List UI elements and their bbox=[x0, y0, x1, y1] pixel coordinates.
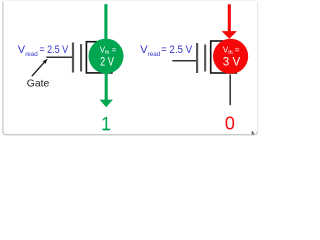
svg-text:Gate: Gate bbox=[27, 78, 50, 89]
control gate plate (left) bbox=[72, 43, 74, 73]
blocked current line (right, red) bbox=[228, 4, 231, 32]
Vth label inside green circle bbox=[100, 46, 117, 69]
svg-text:= 2.5 V: = 2.5 V bbox=[161, 44, 193, 56]
callout arrow from Gate to wire (left) bbox=[32, 59, 48, 77]
blocked current arrowhead (right, red) bbox=[222, 31, 237, 39]
svg-text:3 V: 3 V bbox=[223, 54, 241, 68]
drain current line into cell (left, green) bbox=[104, 4, 107, 40]
source current line out of cell (left, green) bbox=[105, 72, 108, 100]
svg-text:2 V: 2 V bbox=[100, 54, 115, 68]
svg-text:= 2.5 V: = 2.5 V bbox=[39, 44, 68, 56]
Vth = 3V cell circle (right) bbox=[213, 39, 248, 74]
control gate plate (right) bbox=[196, 43, 198, 73]
Vth label inside red circle bbox=[223, 46, 241, 69]
gate wire (right) bbox=[172, 60, 196, 62]
gate wire (left) bbox=[46, 56, 72, 58]
source lead stub (right) bbox=[229, 74, 231, 105]
transistor channel box (left) bbox=[86, 42, 112, 73]
mouse cursor bbox=[252, 130, 255, 135]
transistor channel box (right) bbox=[211, 41, 237, 73]
current arrowhead (left, green) bbox=[100, 100, 113, 108]
svg-text:read: read bbox=[148, 51, 161, 58]
floating gate plate (right) bbox=[204, 45, 206, 72]
floating gate plate (left) bbox=[80, 44, 82, 72]
label Vread = 2.5 V (left) bbox=[18, 44, 69, 58]
svg-text:0: 0 bbox=[225, 114, 235, 134]
svg-text:1: 1 bbox=[101, 114, 111, 134]
Vth = 2V cell circle (left) bbox=[89, 39, 124, 74]
svg-text:read: read bbox=[25, 51, 38, 58]
slide frame border bbox=[3, 1, 258, 135]
label Vread = 2.5 V (right) bbox=[140, 44, 193, 58]
